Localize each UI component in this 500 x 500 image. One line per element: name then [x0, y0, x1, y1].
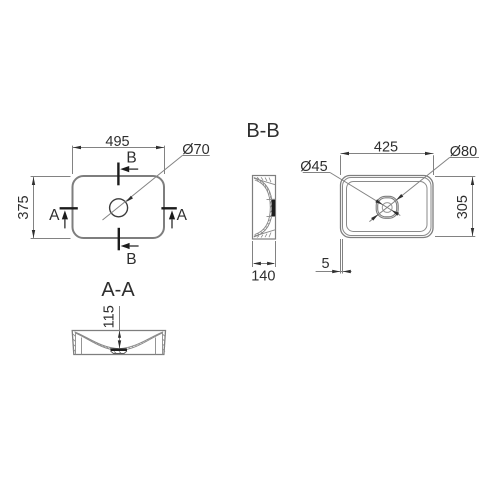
leader diameter 80 [369, 158, 479, 222]
leader diameter 45 [303, 173, 401, 216]
label B-B [246, 120, 279, 142]
svg-text:A: A [49, 207, 60, 224]
bottom view outer outline [341, 176, 434, 238]
svg-text:115: 115 [101, 305, 117, 328]
label diameter 80 [450, 144, 477, 160]
svg-text:375: 375 [16, 195, 32, 219]
dimension 5 [316, 239, 352, 274]
svg-text:Ø70: Ø70 [182, 142, 209, 158]
dimension 140 [251, 241, 275, 285]
A-A inner wall lines [73, 332, 165, 355]
A-A bowl wall arcs [75, 332, 164, 351]
svg-text:140: 140 [251, 269, 275, 285]
label diameter 70 [182, 142, 209, 158]
svg-text:305: 305 [455, 195, 471, 219]
svg-text:B: B [126, 150, 136, 167]
dimension 495 [73, 134, 165, 174]
leader line for diameter 70 [103, 156, 210, 221]
dimension 305 [435, 177, 475, 237]
bottom view inner rim [347, 182, 428, 232]
drain hole circle [110, 199, 128, 217]
svg-text:495: 495 [105, 134, 129, 150]
section mark A left [49, 207, 78, 229]
plan view basin outline [73, 176, 165, 238]
section mark B top [118, 150, 138, 186]
svg-text:Ø45: Ø45 [300, 159, 327, 175]
dimension 425 [341, 139, 434, 175]
svg-text:B-B: B-B [246, 120, 279, 142]
B-B rim edge wedges [254, 177, 276, 237]
svg-text:B: B [126, 251, 136, 268]
A-A drain detail [111, 348, 128, 353]
section mark A right [161, 207, 187, 229]
A-A section outline [72, 331, 165, 355]
section mark B bottom [119, 228, 139, 268]
B-B section outline [253, 176, 276, 240]
svg-text:A: A [177, 207, 188, 224]
B-B bowl wall arcs [254, 178, 272, 238]
svg-text:425: 425 [374, 139, 398, 155]
label A-A [101, 279, 135, 301]
A-A base verticals [82, 338, 156, 355]
B-B drain detail [267, 199, 276, 217]
dimension 115 [101, 305, 121, 348]
svg-text:Ø80: Ø80 [450, 144, 477, 160]
svg-text:5: 5 [322, 256, 330, 272]
dimension 375 [16, 177, 71, 239]
svg-text:A-A: A-A [101, 279, 135, 301]
drain rings [376, 196, 398, 218]
label diameter 45 [300, 159, 327, 175]
